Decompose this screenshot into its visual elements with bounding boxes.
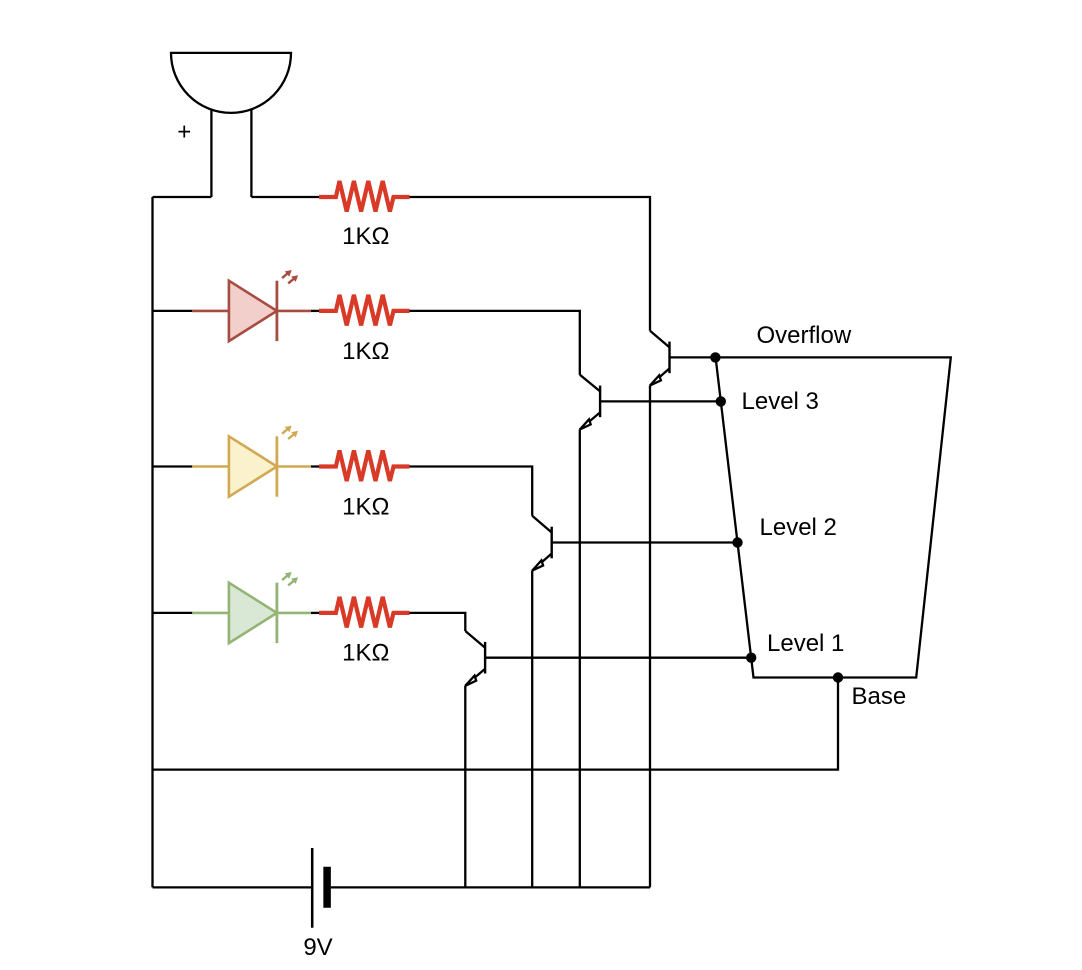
wire Q4 base to node Level 1 (485, 657, 751, 659)
wire Q1 emitter to bottom rail (649, 386, 651, 888)
transistor Q3 (Level 2 driver) (532, 516, 552, 571)
LED D1 (red) (153, 270, 312, 341)
svg-text:Level 2: Level 2 (760, 514, 837, 541)
wire top rail to buzzer (153, 196, 212, 198)
wire R1 to Q1 collector (410, 197, 651, 331)
wire Base return to left rail (153, 678, 839, 770)
wire Q4 emitter to bottom rail (464, 686, 466, 888)
svg-text:Level 1: Level 1 (767, 630, 844, 657)
wire R4 to Q4 collector (410, 613, 466, 631)
water tank sensor probe outline (716, 357, 951, 677)
transistor Q1 (overflow driver) (650, 331, 670, 386)
svg-text:1KΩ: 1KΩ (342, 493, 389, 520)
resistor R2 1KΩ (319, 295, 409, 326)
wire Q1 base to node Overflow (670, 356, 716, 358)
transistor Q4 (Level 1 driver) (465, 631, 485, 686)
transistor Q2 (Level 3 driver) (580, 375, 600, 430)
wire D2 cathode lead to resistor (311, 465, 320, 467)
svg-text:9V: 9V (303, 934, 332, 961)
wire buzzer to R1 (251, 196, 319, 198)
wire D1 cathode lead to resistor (311, 310, 320, 312)
resistor R3 1KΩ (319, 451, 409, 482)
svg-text:Base: Base (852, 683, 907, 710)
svg-text:+: + (177, 119, 191, 146)
wire D3 cathode lead to resistor (311, 612, 320, 614)
LED D2 (yellow) (153, 426, 312, 497)
node Overflow (710, 352, 720, 362)
svg-text:1KΩ: 1KΩ (342, 338, 389, 365)
battery B1 9V (312, 848, 327, 928)
svg-text:Level 3: Level 3 (742, 388, 819, 415)
wire bottom rail left of battery (153, 886, 313, 888)
node Level 2 (732, 537, 742, 547)
node Level 3 (716, 396, 726, 406)
node Level 1 (746, 653, 756, 663)
svg-text:1KΩ: 1KΩ (342, 223, 389, 250)
svg-text:Overflow: Overflow (757, 322, 852, 349)
wire R3 to Q3 collector (410, 467, 533, 516)
resistor R1 1KΩ (319, 181, 409, 212)
buzzer BZ1 (171, 53, 291, 197)
wire R2 to Q2 collector (410, 311, 580, 375)
svg-text:1KΩ: 1KΩ (342, 640, 389, 667)
wire Q3 emitter to bottom rail (531, 571, 533, 888)
node Base (833, 672, 843, 682)
resistor R4 1KΩ (319, 597, 409, 628)
wire Q2 base to node Level 3 (600, 400, 721, 402)
LED D3 (green) (153, 572, 312, 643)
wire Q2 emitter to bottom rail (579, 430, 581, 888)
wire bottom rail right of battery (331, 886, 650, 888)
wire Q3 base to node Level 2 (552, 541, 738, 543)
wire left rail (151, 197, 153, 887)
